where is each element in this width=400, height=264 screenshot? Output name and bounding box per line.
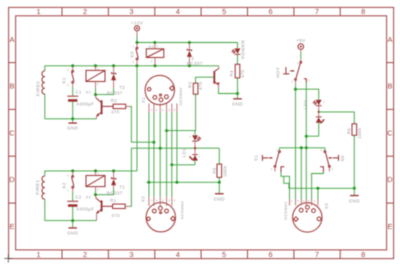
svg-text:K2: K2: [62, 182, 67, 188]
svg-text:2: 2: [162, 198, 164, 202]
svg-text:X2: X2: [140, 196, 145, 202]
svg-text:POWER: POWER: [240, 39, 245, 59]
connector X1 NC5MAV: [141, 75, 183, 112]
svg-text:BC337: BC337: [107, 90, 123, 95]
svg-text:K2: K2: [86, 195, 91, 199]
svg-text:1: 1: [67, 188, 69, 192]
wire HOT to LD2: [296, 89, 319, 99]
svg-text:2: 2: [321, 148, 323, 152]
wire HOT NC throw to X3: [305, 83, 307, 199]
svg-text:3: 3: [133, 60, 135, 64]
junction: [94, 64, 97, 67]
svg-text:2: 2: [83, 7, 88, 16]
svg-text:C: C: [9, 128, 15, 137]
wire R4 to gnd: [237, 78, 239, 98]
svg-text:E: E: [387, 222, 392, 231]
junction: [94, 93, 97, 96]
svg-text:GND: GND: [67, 126, 79, 131]
frame row ticks right: [387, 62, 394, 64]
junction: [71, 64, 74, 67]
relay coil K1: [86, 66, 105, 95]
junction: [236, 92, 239, 95]
junction LD2 mid: [318, 111, 320, 113]
svg-text:4: 4: [176, 7, 181, 16]
frame column ticks bottom: [61, 250, 63, 259]
switch S1: [253, 148, 284, 173]
junction: [353, 187, 356, 190]
junction: [152, 141, 155, 144]
inductor FIRE0: [42, 71, 45, 94]
svg-text:5: 5: [308, 199, 310, 203]
svg-text:GND: GND: [349, 198, 361, 203]
resistor R4 470: [229, 64, 245, 78]
wire bundle pin3: [171, 113, 173, 197]
resistor R3 470: [187, 81, 203, 94]
relay contact K3: [129, 43, 138, 66]
wire bundle pin4: [153, 113, 155, 197]
svg-text:100K: 100K: [222, 165, 227, 177]
svg-text:2: 2: [297, 61, 299, 65]
frame row ticks left: [9, 62, 16, 64]
junction: [305, 135, 308, 138]
svg-text:4: 4: [156, 108, 158, 112]
relay contact K1: [62, 66, 74, 87]
svg-text:3: 3: [67, 68, 69, 72]
svg-text:2: 2: [97, 82, 99, 86]
svg-text:K1: K1: [62, 77, 67, 83]
svg-text:NC5MAV: NC5MAV: [283, 201, 288, 220]
svg-text:2: 2: [97, 187, 99, 191]
wire bundle X1-X2 pin1: [148, 113, 150, 197]
svg-text:3: 3: [174, 198, 176, 202]
svg-text:K1: K1: [86, 90, 91, 94]
wire HOT vertical to X3: [295, 89, 297, 199]
wire HOT common down: [295, 84, 297, 89]
wire LD1 to X1 pin5 net: [172, 164, 195, 166]
ground GND3: [67, 221, 79, 236]
wire R5 to gnd: [218, 177, 220, 182]
svg-text:1: 1: [157, 44, 159, 48]
svg-text:470: 470: [111, 213, 120, 218]
junction: [71, 117, 74, 120]
wire +5V to switch: [300, 53, 302, 59]
resistor R2 470: [111, 98, 130, 115]
svg-text:FIRE1: FIRE1: [35, 180, 40, 195]
junction: [175, 181, 178, 184]
junction: [71, 219, 74, 222]
LED LD2 upper: [303, 100, 325, 112]
svg-text:R3: R3: [187, 81, 192, 88]
wire S0 throw to X3: [312, 172, 324, 199]
svg-text:4400µF: 4400µF: [76, 102, 94, 107]
junction: [305, 146, 308, 149]
svg-text:1: 1: [151, 198, 153, 202]
supply +5V symbol: [298, 44, 304, 50]
svg-text:GND: GND: [214, 197, 226, 202]
wire +12V to rail: [136, 36, 138, 43]
junction: [165, 129, 168, 132]
relay contact K2: [62, 171, 74, 192]
svg-text:2: 2: [277, 148, 279, 152]
svg-text:4: 4: [156, 198, 158, 202]
svg-text:FIRE0: FIRE0: [36, 81, 41, 96]
svg-text:1: 1: [133, 45, 135, 49]
net FIRE1 top rail: [45, 171, 137, 176]
junction: [112, 169, 115, 172]
LED LD1 upper: [189, 131, 201, 149]
junction: [71, 169, 74, 172]
svg-text:D: D: [9, 175, 15, 184]
wire rail to power led: [237, 43, 239, 49]
junction: [154, 64, 157, 67]
LED POWER: [232, 39, 246, 59]
junction: [136, 41, 139, 44]
svg-text:3: 3: [314, 199, 316, 203]
svg-text:LD1: LD1: [181, 148, 186, 158]
origin cross marker: [4, 254, 12, 262]
svg-text:1: 1: [37, 250, 42, 259]
svg-text:C1: C1: [75, 89, 82, 94]
svg-text:1: 1: [271, 167, 273, 171]
svg-text:1: 1: [67, 83, 69, 87]
junction: [294, 88, 297, 91]
net X3 gnd rail: [284, 176, 355, 188]
net switch rail: [280, 147, 325, 149]
wire LD2 bottom to NC net: [306, 135, 318, 137]
wire rail vertical: [300, 148, 302, 199]
wire coil to bottom rail: [44, 94, 46, 119]
LED LD1 lower: [181, 148, 200, 165]
svg-text:2: 2: [303, 199, 305, 203]
connector X3 NC5MAV: [283, 199, 329, 232]
diode D2 flyback K2: [107, 171, 125, 195]
junction: [316, 187, 319, 190]
capacitor C2: [67, 192, 94, 221]
wire bundle pin2: [159, 113, 161, 197]
wire R5 gnd left: [147, 181, 220, 183]
svg-text:4: 4: [297, 199, 299, 203]
svg-text:E: E: [9, 222, 14, 231]
wire to R5: [218, 148, 220, 164]
ground GND2: [232, 98, 244, 106]
diode D3 flyback K3: [187, 43, 203, 67]
relay coil K3: [146, 43, 164, 66]
svg-text:R6: R6: [347, 128, 352, 135]
ground GND5: [349, 188, 361, 203]
wire T3 base: [196, 77, 214, 83]
junction: [170, 163, 173, 166]
svg-text:D: D: [387, 175, 393, 184]
svg-text:T2: T2: [119, 85, 125, 90]
transistor T1 BC337: [96, 195, 113, 221]
svg-text:2: 2: [323, 119, 325, 123]
svg-text:5: 5: [222, 250, 227, 259]
svg-text:2: 2: [83, 250, 88, 259]
svg-text:C: C: [387, 128, 393, 137]
svg-text:2: 2: [151, 59, 153, 63]
svg-text:NC5MAV: NC5MAV: [179, 201, 184, 220]
svg-text:100K: 100K: [357, 127, 362, 139]
svg-text:B: B: [387, 82, 392, 91]
inductor FIRE1: [42, 176, 45, 199]
svg-text:X1: X1: [141, 97, 146, 103]
svg-text:GND: GND: [232, 102, 244, 107]
wire R6 to gnd: [353, 135, 355, 188]
svg-text:2: 2: [189, 135, 191, 139]
capacitor C1: [67, 87, 94, 119]
svg-text:1: 1: [151, 108, 153, 112]
svg-text:5: 5: [222, 7, 227, 16]
switch HOT: [276, 58, 311, 84]
svg-text:+12V: +12V: [131, 20, 144, 25]
wire coil to bottom rail: [44, 199, 46, 220]
wire K3 contact to FIRE1 (vertical trunk): [136, 66, 138, 171]
junction: [94, 193, 97, 196]
junction: [112, 64, 115, 67]
net FIRE1 bottom rail: [45, 220, 97, 222]
wire K2 coil drive: [96, 188, 114, 194]
junction: [159, 147, 162, 150]
junction: [188, 64, 191, 67]
resistor R1 470: [110, 198, 129, 218]
svg-text:3: 3: [174, 108, 176, 112]
frame column ticks top: [61, 7, 63, 15]
junction: [218, 181, 221, 184]
wire bundle pin5: [166, 113, 168, 197]
wire X3 pin5 stub: [317, 188, 319, 199]
svg-text:2: 2: [162, 108, 164, 112]
LED LD2 lower: [316, 112, 325, 136]
svg-text:1: 1: [37, 7, 42, 16]
wire led to R4: [237, 55, 239, 65]
resistor R5 100K: [212, 164, 227, 177]
wire R2 to X1 pin2 net: [130, 106, 154, 142]
svg-text:470: 470: [240, 69, 245, 78]
svg-text:470: 470: [198, 81, 203, 90]
svg-text:+5V: +5V: [296, 38, 306, 43]
wire R1 to X1 pin3 net: [130, 148, 220, 206]
svg-text:5: 5: [168, 108, 170, 112]
junction: [94, 169, 97, 172]
wire T3 emitter to gnd rail: [219, 89, 238, 94]
svg-text:A: A: [9, 35, 14, 44]
wire bundle shield: [176, 113, 178, 183]
svg-text:3: 3: [129, 7, 134, 16]
junction: [147, 181, 150, 184]
wire LD2 mid to R6: [319, 112, 355, 124]
junction LD1 mid: [194, 147, 196, 149]
wire S1 throw to X3: [281, 172, 290, 199]
svg-text:R1: R1: [110, 198, 117, 203]
svg-text:8: 8: [361, 250, 366, 259]
svg-text:1: 1: [291, 80, 293, 84]
svg-text:GND: GND: [67, 231, 79, 236]
junction: [188, 41, 191, 44]
svg-text:6: 6: [268, 7, 273, 16]
svg-text:HOT: HOT: [276, 67, 281, 78]
ground GND4: [214, 182, 226, 201]
svg-text:C2: C2: [75, 194, 82, 199]
svg-text:7: 7: [315, 250, 320, 259]
svg-text:BC337: BC337: [187, 61, 203, 66]
wire K1 coil drive: [96, 88, 114, 94]
wire R3 to X1 pin4 net: [167, 94, 196, 130]
svg-text:X3: X3: [324, 203, 329, 209]
svg-text:S0: S0: [340, 155, 345, 161]
svg-text:4: 4: [176, 250, 181, 259]
svg-text:BC337: BC337: [107, 190, 123, 195]
transistor T2 BC337: [96, 95, 113, 119]
transistor T3 BC337: [213, 66, 219, 89]
net FIRE0 top rail: [45, 66, 219, 71]
svg-text:1: 1: [97, 66, 99, 70]
svg-text:7: 7: [315, 7, 320, 16]
svg-text:6: 6: [268, 250, 273, 259]
svg-text:R5: R5: [212, 167, 217, 174]
svg-text:R4: R4: [229, 70, 234, 77]
svg-text:NC5MAV: NC5MAV: [178, 87, 183, 106]
svg-text:LD2: LD2: [303, 100, 308, 110]
svg-text:3: 3: [67, 173, 69, 177]
svg-text:1: 1: [323, 100, 325, 104]
svg-text:470: 470: [111, 110, 120, 115]
svg-text:K3: K3: [149, 45, 154, 49]
svg-text:3: 3: [191, 56, 194, 61]
junction: [135, 64, 138, 67]
svg-text:K3: K3: [129, 51, 134, 57]
svg-text:A: A: [387, 35, 392, 44]
svg-text:1: 1: [97, 171, 99, 175]
svg-text:4400µF: 4400µF: [76, 207, 94, 212]
net FIRE0 bottom rail: [45, 118, 97, 120]
ground GND1: [67, 119, 79, 131]
svg-text:3: 3: [308, 79, 310, 83]
svg-text:1: 1: [291, 199, 293, 203]
junction: [300, 146, 303, 149]
supply +12V symbol: [134, 26, 139, 31]
junction: [153, 41, 156, 44]
svg-text:1: 1: [199, 155, 201, 159]
svg-text:3: 3: [129, 250, 134, 259]
svg-text:B: B: [9, 82, 14, 91]
svg-text:S1: S1: [253, 155, 258, 161]
svg-text:8: 8: [361, 7, 366, 16]
svg-text:5: 5: [168, 198, 170, 202]
connector X2 NC5MAV: [140, 196, 184, 232]
switch S0: [320, 148, 345, 173]
relay coil K2: [86, 171, 105, 200]
svg-text:1: 1: [332, 167, 334, 171]
svg-text:R2: R2: [111, 98, 118, 103]
svg-text:T1: T1: [119, 185, 125, 190]
wire +12V rail: [137, 42, 238, 44]
diode D1 flyback K1: [107, 66, 125, 96]
resistor R6 100K: [347, 124, 363, 139]
